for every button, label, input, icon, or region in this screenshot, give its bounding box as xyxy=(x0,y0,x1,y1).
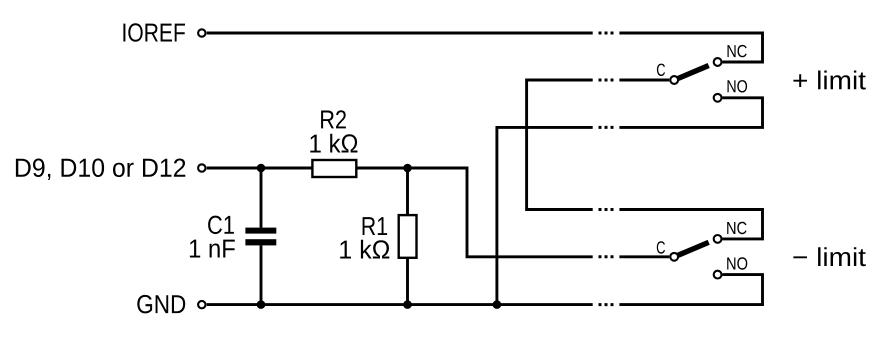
junction node D9/C1 xyxy=(257,164,266,173)
wire GND rail left xyxy=(207,303,593,306)
junction node NO-return/GND xyxy=(493,300,502,309)
label + limit xyxy=(793,71,865,90)
resistor R2 xyxy=(312,160,356,177)
wire S1 NO return to GND xyxy=(497,127,593,304)
junction node C1/GND xyxy=(257,300,266,309)
terminal D9 xyxy=(198,164,205,171)
resistor R1 xyxy=(399,215,417,258)
wire C1 bottom lead xyxy=(260,245,263,304)
wire D9 to R2 xyxy=(207,167,313,170)
pin label NO (S1) xyxy=(728,80,748,92)
wire GND rail right up to S2 NO xyxy=(619,275,762,305)
wire S2 C feed right xyxy=(619,255,669,258)
label R2 xyxy=(321,110,346,128)
switch S1 NO terminal xyxy=(714,94,722,102)
value 1 nF (C1) xyxy=(190,240,235,258)
net label D9, D10 or D12 xyxy=(16,159,185,181)
label − limit xyxy=(793,247,865,266)
wire S2 NC feed right xyxy=(619,210,762,239)
wire break dots GND rail xyxy=(599,303,614,306)
wire break dots S2 C feed xyxy=(599,255,614,258)
wire C1 top lead xyxy=(260,168,263,228)
value 1 kOhm (R1) xyxy=(340,240,389,259)
pin label C (S1) xyxy=(657,64,665,76)
switch S2 arm xyxy=(678,242,709,255)
wire S1 C feed right xyxy=(619,79,669,82)
wire break dots IOREF rail xyxy=(599,32,614,35)
switch S2 NO terminal xyxy=(714,271,722,279)
wire break dots S1 C feed xyxy=(599,79,614,82)
pin label NC (S1) xyxy=(728,45,747,57)
wire break dots S2 NC feed xyxy=(599,208,614,211)
capacitor C1 plate top xyxy=(245,228,276,234)
junction node R2/R1 xyxy=(403,164,412,173)
value 1 kOhm (R2) xyxy=(310,134,357,153)
wire IOREF rail right to S1 NC xyxy=(619,33,762,62)
wire R1 bottom lead xyxy=(406,258,409,305)
switch S1 common terminal xyxy=(670,76,678,84)
capacitor C1 plate bottom xyxy=(245,239,276,245)
switch S1 NC terminal xyxy=(714,58,722,66)
wire R1 top lead xyxy=(406,168,409,215)
wire R2 to corner, down to S2 C feed xyxy=(356,168,592,257)
label C1 xyxy=(208,216,234,235)
net label IOREF xyxy=(123,23,185,42)
switch S1 arm xyxy=(678,66,709,79)
wire S1 NO return right xyxy=(619,98,762,128)
junction node R1/GND xyxy=(403,300,412,309)
wire series link S1 C to S2 NC xyxy=(527,80,593,210)
wire break dots S1 NO return xyxy=(599,126,614,129)
terminal IOREF xyxy=(198,29,205,36)
net label GND xyxy=(137,295,185,314)
switch S2 common terminal xyxy=(670,253,678,261)
wire IOREF rail left xyxy=(207,32,593,35)
pin label NC (S2) xyxy=(727,222,746,234)
pin label C (S2) xyxy=(657,241,665,253)
switch S2 NC terminal xyxy=(714,235,722,243)
pin label NO (S2) xyxy=(727,257,747,269)
label R1 xyxy=(363,217,388,235)
terminal GND xyxy=(198,301,205,308)
